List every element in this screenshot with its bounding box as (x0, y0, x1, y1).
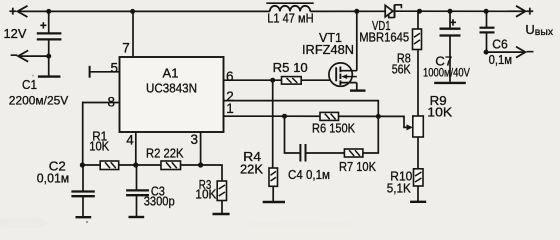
substrate arrow (VT1) (341, 74, 347, 79)
svg-text:C4 0,1м: C4 0,1м (288, 168, 330, 182)
wire R5 to gate (301, 79, 331, 81)
resistor R2 (161, 161, 181, 170)
ground (under R4) (263, 201, 285, 203)
svg-text:−: − (10, 48, 18, 63)
pin 5 stub wire (90, 71, 120, 73)
wire drain to rail (356, 11, 358, 71)
svg-text:10K: 10K (427, 106, 453, 120)
ground (under C7) (434, 82, 466, 84)
wire R3 to ground (221, 201, 223, 214)
svg-text:IRFZ48N: IRFZ48N (302, 43, 354, 57)
svg-text:6: 6 (226, 69, 234, 84)
wire rail to R8 (417, 11, 419, 29)
svg-text:C6: C6 (492, 38, 508, 52)
svg-text:1000м/40V: 1000м/40V (423, 66, 470, 80)
svg-text:+: + (40, 20, 47, 32)
svg-text:0,1м: 0,1м (489, 53, 512, 67)
wire R4 to ground (272, 186, 274, 201)
svg-text:3: 3 (190, 132, 198, 147)
svg-text:C1: C1 (22, 77, 37, 92)
wire L1 to VD1 (310, 10, 385, 12)
wire pin6 node down to R4 (272, 80, 274, 168)
potentiometer R9 (413, 116, 424, 137)
wire pin 7 to rail (132, 11, 134, 57)
wire pin 1 to R6 network (224, 115, 285, 117)
svg-text:L1 47 мН: L1 47 мН (267, 12, 314, 26)
input terminal - (18, 50, 28, 61)
wiper arrowhead (407, 124, 413, 130)
wire feedback node to R9 wiper (378, 116, 410, 127)
wire pin 2 to feedback node (224, 101, 379, 117)
wire -output (486, 51, 525, 53)
ground (under C2) (76, 216, 92, 218)
wire bottom row (C2 to pin3) (82, 164, 200, 166)
wire C1 to ground (48, 56, 50, 76)
node: rail / C6 (484, 9, 489, 14)
op-amp U1 / IC A1 UC3843N body (120, 57, 224, 132)
resistor R6 (320, 112, 339, 120)
resistor R4 (269, 168, 278, 186)
resistor R1 (100, 161, 119, 170)
node: rail / R8 (417, 9, 422, 14)
svg-text:A1: A1 (163, 65, 179, 80)
wire pin 3 (200, 132, 202, 165)
pin 5 stub tick (89, 66, 91, 78)
node: rail / C7 (448, 9, 453, 14)
ground (under R10) (410, 201, 426, 203)
node: C2 / R1 / pin8 (80, 162, 85, 167)
wire pin 4 (135, 132, 137, 165)
wire pin 6 to R5 (224, 79, 282, 81)
resistor R8 (413, 29, 422, 50)
output terminal + (516, 6, 525, 17)
capacitor C6 (480, 11, 495, 52)
svg-text:12V: 12V (4, 26, 27, 41)
node: rail / pin7 (130, 9, 135, 14)
svg-text:7: 7 (122, 41, 130, 56)
wire R10 to ground (417, 186, 419, 201)
wire VD1 to output (396, 10, 526, 12)
ground (under R3) (213, 213, 230, 215)
node: C6 / -out (484, 50, 489, 55)
wire - input to C1 (19, 55, 49, 57)
ground (under C1) (38, 75, 61, 77)
resistor R3 (217, 181, 226, 201)
diode VD1 (Schottky) (385, 5, 401, 18)
svg-text:R2 22K: R2 22K (146, 147, 184, 161)
svg-text:56K: 56K (392, 63, 412, 77)
capacitor C7 (440, 11, 461, 82)
svg-text:5: 5 (111, 61, 119, 76)
node: R6 / pin2 / wiper (376, 114, 381, 119)
node: pin6 / R5 / R4 (270, 78, 275, 83)
speck (32, 75, 34, 77)
svg-text:4: 4 (126, 132, 134, 147)
wire pin3 node to R3 (201, 165, 222, 181)
resistor R7 (344, 149, 363, 157)
svg-text:R6 150K: R6 150K (312, 122, 356, 136)
svg-text:10K: 10K (89, 139, 110, 153)
capacitor C2 (71, 165, 94, 216)
wire C4/R7 branch (285, 116, 300, 153)
svg-text:+: + (526, 3, 534, 18)
input terminal + (18, 6, 28, 17)
output terminal - (516, 47, 525, 58)
node: +12V / C1 (46, 9, 51, 14)
capacitor C4 (300, 144, 305, 162)
node: rail / drain (354, 9, 359, 14)
resistor R5 (282, 77, 302, 85)
capacitor C3 (126, 165, 149, 216)
svg-text:+: + (9, 3, 17, 18)
node: -12V / C1 (46, 54, 51, 59)
wire +12V top rail (input to L1) (19, 10, 270, 12)
svg-text:22K: 22K (240, 163, 264, 177)
wire C4 to R7 (306, 152, 345, 154)
ground (under C3) (129, 216, 145, 218)
ground (VT1 source) (350, 89, 366, 91)
svg-text:8: 8 (108, 94, 116, 109)
svg-text:2200м/25V: 2200м/25V (9, 93, 69, 107)
resistor R10 (414, 169, 424, 186)
wire source to ground (356, 83, 358, 90)
node: R2 / pin3 / R3 (198, 162, 203, 167)
wire R7 to feedback node (363, 116, 378, 153)
svg-text:10K: 10K (195, 188, 217, 202)
svg-text:3300p: 3300p (144, 194, 175, 208)
wire R8 to R9 (417, 50, 419, 117)
svg-text:R5 10: R5 10 (273, 61, 308, 75)
svg-text:+: + (450, 18, 457, 30)
svg-text:UC3843N: UC3843N (146, 82, 197, 96)
svg-text:MBR1645: MBR1645 (359, 31, 409, 45)
inductor L1 (266, 3, 313, 11)
wire pin 8 to R1/C2 node (83, 103, 120, 166)
speck (86, 221, 88, 223)
svg-text:1: 1 (226, 101, 234, 116)
transistor Q1 VT1 IRFZ48N (329, 63, 357, 86)
svg-text:R7 10K: R7 10K (339, 160, 377, 174)
node: R1 / R2 / pin4 (133, 162, 138, 167)
capacitor C1 (37, 11, 62, 56)
svg-text:0,01м: 0,01м (37, 171, 70, 185)
svg-text:5,1K: 5,1K (387, 181, 412, 195)
node: pin1 / R6 / C4 (282, 114, 287, 119)
svg-text:−: − (526, 44, 534, 59)
wire R6 line (285, 115, 379, 117)
wire R9 to R10 (417, 137, 419, 169)
